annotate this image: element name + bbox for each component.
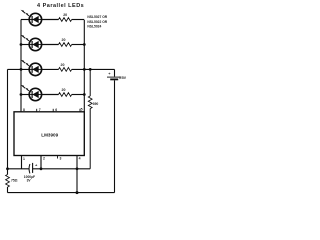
- ground rail (bottom): [8, 192, 115, 194]
- svg-text:+: +: [108, 71, 111, 76]
- svg-text:6: 6: [55, 108, 57, 112]
- svg-text:8: 8: [23, 108, 25, 112]
- wire pin4 down to rail: [76, 156, 78, 193]
- wire R2 to bus: [72, 44, 85, 46]
- svg-text:75Ω: 75Ω: [11, 179, 18, 183]
- svg-text:1: 1: [23, 157, 25, 161]
- battery B1 1.5V: [107, 69, 127, 192]
- svg-text:20: 20: [61, 63, 65, 67]
- pin 6: [52, 109, 54, 112]
- wire R3 to battery line: [72, 68, 115, 70]
- svg-text:3: 3: [60, 157, 62, 161]
- pin 7: [36, 109, 38, 112]
- node dot rail / pin4 line: [76, 191, 79, 194]
- LED D4: [21, 85, 42, 101]
- node dot bus A / LED3: [20, 68, 23, 71]
- node dot bus / R2: [83, 43, 86, 46]
- svg-text:20: 20: [62, 88, 66, 92]
- resistor R2 20 ohm: [59, 43, 72, 47]
- LED D2: [21, 35, 42, 51]
- wire LED3 left (to bus B): [8, 68, 30, 70]
- node bus A (LED cathode bus, left): [20, 20, 22, 112]
- svg-text:NSL5027 OR: NSL5027 OR: [87, 15, 107, 19]
- IC U1 LM3909: [14, 108, 84, 161]
- resistor R5 390 ohm: [88, 69, 98, 168]
- svg-text:20: 20: [62, 38, 66, 42]
- node dot W1 / pin4: [76, 167, 79, 170]
- svg-text:7: 7: [39, 108, 41, 112]
- node dot 390 / battery line: [89, 68, 92, 71]
- LED D1: [21, 10, 42, 26]
- wire LED4 right: [42, 94, 59, 96]
- svg-text:390: 390: [93, 102, 99, 106]
- node dot bus / R4: [83, 93, 86, 96]
- pin 5: [79, 109, 81, 112]
- svg-text:1.5V: 1.5V: [119, 76, 126, 80]
- svg-text:2: 2: [43, 157, 45, 161]
- svg-text:NSL5024: NSL5024: [87, 25, 101, 29]
- wire LED4 left: [21, 94, 29, 96]
- resistor R6 75 ohm: [6, 175, 18, 188]
- wire LED2 left: [21, 44, 29, 46]
- wire LED2 right: [42, 44, 59, 46]
- capacitor C1 (polarized): [24, 162, 38, 182]
- node dot bus / battery line: [83, 68, 86, 71]
- wire LED3 right: [42, 68, 59, 70]
- svg-text:4: 4: [79, 157, 81, 161]
- wire LED1 right: [42, 19, 59, 21]
- wire pin1 down: [21, 156, 23, 169]
- node dot W1 / bus B: [6, 167, 9, 170]
- wire LED1 left: [21, 19, 29, 21]
- wire pin2 down: [40, 156, 42, 169]
- svg-text:NSL5022 OR: NSL5022 OR: [87, 20, 107, 24]
- node dot bus A / LED4: [20, 93, 23, 96]
- node dot W1 / pin2: [40, 167, 43, 170]
- pin 3: [57, 156, 59, 159]
- svg-text:3V: 3V: [27, 179, 32, 183]
- resistor R3 20 ohm: [59, 68, 72, 72]
- wire W1 bottom horizontal: [8, 168, 30, 170]
- svg-text:20: 20: [63, 13, 67, 17]
- svg-text:+: +: [35, 162, 38, 167]
- wire R1 to bus: [72, 19, 85, 21]
- resistor R4 20 ohm: [59, 93, 72, 97]
- anode bus (right vertical): [83, 20, 85, 112]
- resistor R1 20 ohm: [59, 18, 72, 22]
- wire R4 to bus: [72, 94, 85, 96]
- svg-text:LM3909: LM3909: [41, 133, 58, 138]
- svg-text:5: 5: [81, 108, 83, 112]
- svg-text:4 Parallel LEDs: 4 Parallel LEDs: [37, 3, 84, 9]
- node bus B (far left vertical): [7, 69, 9, 192]
- LED D3: [21, 60, 42, 76]
- node dot bus A / LED2: [20, 43, 23, 46]
